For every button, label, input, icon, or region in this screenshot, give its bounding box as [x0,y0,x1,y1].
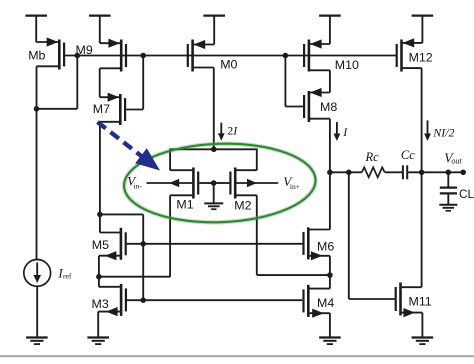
capacitor CL (load) [440,172,474,204]
svg-text:M3: M3 [92,297,109,311]
wire: node to Rc [330,171,362,173]
wire: M7 gate tap vertical [142,56,144,110]
current arrow I (second branch current) [334,122,349,141]
wire: M8 drain down through first stage output node to M6 drain [329,119,331,230]
svg-text:CL: CL [459,187,474,201]
wire: M9 drain down to M7 source [99,68,101,97]
wire: Mb drain down to bias tap [36,66,38,109]
node Vin- (inverting input) [127,174,142,191]
transistor M11 (NMOS output driver) [396,283,432,318]
svg-text:NI/2: NI/2 [432,125,454,139]
node: junction Mb drain / bias tap [34,106,40,112]
node: junction M3/M4 gate line [140,297,146,303]
wire: M7 drain down to mirror gates tap [99,122,101,233]
wire: gate bias bus from Mb gate to M12 gate [64,55,397,57]
wire: M2 lower lead down and across to M6/M4 junction [257,195,330,275]
wire: M8 gate tap vertical [285,56,303,107]
wire: M11 source to ground [421,313,423,337]
svg-text:M2: M2 [234,199,251,213]
ground (below M11) [412,338,434,345]
node Vin+ (non-inverting input) [283,174,300,191]
transistor M9 (PMOS cascode top) [76,39,127,72]
node: junction M7 drain / mirror gate branch [97,212,103,218]
svg-text:out: out [451,156,462,165]
wire: bias tap from Mb drain to gate bus [37,56,78,109]
node: junction CL tap [446,170,452,176]
svg-text:Rc: Rc [365,150,380,164]
svg-text:in-: in- [134,182,143,191]
wire: M6 source down to M4 drain [329,256,331,289]
annotation: green ellipse highlighting input pair [123,141,317,226]
node: junction M5/M6 gate line [140,241,146,247]
wire: M4 source to ground [329,313,331,337]
power VDD supply rail (above M10) [319,16,341,44]
svg-text:M10: M10 [335,58,359,72]
wire: M5 drain lead from M7 drain line [100,232,120,234]
svg-text:M11: M11 [409,295,432,309]
transistor M7 (PMOS cascode) [93,93,143,125]
node Vout terminal [444,151,466,176]
wire: M11 gate tap vertical [349,172,395,299]
node: junction M8 drain / compensation network [327,170,333,176]
transistor M1 (input pair left) [147,168,214,212]
wire: M12 drain down output branch to M11 drain [421,68,423,287]
svg-text:M6: M6 [317,239,334,253]
ground (below M3) [87,338,109,345]
transistor M4 (NMOS mirror) [304,285,335,318]
power VDD supply rail (above Mb) [25,16,47,42]
svg-text:M12: M12 [409,51,433,65]
svg-text:M1: M1 [176,198,193,212]
node: junction M6 source / M2 branch [327,272,333,278]
annotation: blue dashed arrow from M7 to input pair [98,122,161,171]
svg-text:Cc: Cc [401,148,415,162]
transistor M0 (PMOS tail current source) [188,40,238,72]
transistor Mb (PMOS bias diode) [28,37,64,69]
power VDD supply rail (above M9) [89,16,111,44]
transistor M10 (PMOS mirror top) [304,39,359,72]
wire: gate line M3 to M4 [127,299,302,301]
svg-text:ref: ref [63,271,72,280]
wire: M1 lower lead down and across to M5/M3 junction [99,195,170,276]
wire: M5 source down to M3 drain [98,256,100,287]
transistor M6 (NMOS cascode) [304,227,335,260]
svg-text:M8: M8 [320,100,337,114]
wire: branch to M5 M3 gate line [100,214,143,300]
resistor Rc [362,150,385,178]
svg-text:M4: M4 [317,296,334,310]
wire: output node to terminal [448,171,463,173]
wire: Cc to output node [408,171,448,173]
transistor M12 (PMOS output source) [397,38,433,71]
wire: M10 drain down to M8 source [329,70,331,92]
ground (below Iref) [26,338,48,345]
svg-text:Mb: Mb [28,48,45,62]
current source Iref [24,109,72,337]
transistor M8 (PMOS cascode) [304,88,337,122]
node: junction M5 source / M1 branch [96,274,102,280]
node: junction output branch / compensation [419,170,425,176]
ground (below CL) [439,205,457,211]
wire: M3 source to ground [97,312,99,337]
wire: Rc to Cc [385,171,402,173]
node: junction M0 drain / tail bar [211,147,217,153]
current arrow NI/2 (output branch current) [424,120,454,141]
node: junction M11 gate tap [346,170,352,176]
wire: M0 drain down to input pair [213,68,215,150]
ground (input pair centre) [204,183,223,209]
wire: M3 drain lead [99,286,120,288]
transistor M5 (NMOS cascode mirror) [92,228,126,260]
svg-text:in+: in+ [290,182,300,191]
svg-text:M5: M5 [92,238,109,252]
node: junction gate bus / M8 gate tap [283,53,289,59]
capacitor Cc [401,148,415,179]
svg-text:M7: M7 [93,102,110,116]
node: junction bias tap on gate bus [75,53,81,59]
svg-text:2I: 2I [227,124,238,138]
ground (below M4) [319,338,341,345]
wire: tail node bar of input pair [170,149,257,170]
transistor M2 (input pair right) [214,168,279,213]
power VDD supply rail (above M0) [203,16,225,45]
wire: gate line M5 to M6 [127,243,303,245]
power VDD supply rail (above M12) [412,16,434,43]
wire: M4 drain lead [309,288,330,290]
node: junction input pair centre [211,180,217,186]
svg-text:M0: M0 [220,58,237,72]
node: junction gate bus / M7 gate tap [140,53,146,59]
current arrow 2I (tail current) [218,123,238,141]
transistor M3 (NMOS mirror) [92,284,126,316]
svg-text:M9: M9 [76,43,93,57]
